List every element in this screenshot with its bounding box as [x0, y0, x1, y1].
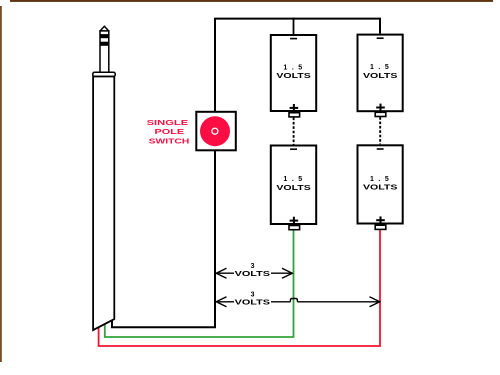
svg-text:1.5: 1.5	[370, 176, 389, 183]
phone plug P1 tip	[100, 26, 110, 72]
svg-text:SWITCH: SWITCH	[149, 139, 190, 146]
svg-text:VOLTS: VOLTS	[363, 185, 398, 192]
switch S1 button center ring	[212, 128, 218, 134]
wire: top bus from switch up and across to battery B3	[215, 19, 380, 111]
dimension arrow: 3 VOLTS across one series pair	[216, 263, 292, 278]
svg-text:1.5: 1.5	[283, 176, 302, 183]
wire: red lead from battery B4 positive terminal to plug	[99, 230, 380, 346]
svg-text:VOLTS: VOLTS	[235, 271, 271, 278]
wire: green lead from battery B2 positive terminal to plug	[105, 231, 294, 338]
battery B4 cell box	[358, 145, 403, 223]
wire: drop from top bus to battery B1	[293, 18, 295, 34]
battery B3 terminal nub	[375, 112, 386, 116]
switch S1 red button	[200, 116, 230, 146]
svg-text:SINGLE: SINGLE	[147, 120, 189, 127]
wire: black return from switch bottom to plug	[112, 151, 215, 328]
svg-text:VOLTS: VOLTS	[363, 73, 398, 80]
battery B3 positive mark	[376, 104, 385, 111]
phone plug P1 body with diagonal cable cut	[93, 77, 114, 331]
battery B2 positive mark	[290, 217, 299, 224]
svg-text:VOLTS: VOLTS	[276, 73, 311, 80]
battery B4 terminal nub	[375, 225, 386, 229]
battery B2 terminal nub	[289, 226, 300, 230]
battery B3 negative mark	[377, 37, 384, 39]
battery B1 value label 1.5 VOLTS	[276, 64, 311, 80]
svg-text:1.5: 1.5	[370, 64, 389, 71]
battery B1 positive mark	[290, 104, 299, 111]
label: SINGLE POLE SWITCH	[147, 120, 190, 146]
battery B2 negative mark	[290, 148, 297, 150]
battery B4 positive mark	[376, 216, 385, 223]
svg-text:3: 3	[251, 292, 255, 299]
svg-text:VOLTS: VOLTS	[235, 299, 271, 306]
battery B2 cell box	[271, 146, 316, 225]
svg-text:1.5: 1.5	[283, 64, 302, 71]
dashed connector between B3 and B4	[379, 117, 381, 144]
svg-text:3: 3	[251, 263, 255, 270]
battery B1 negative mark	[290, 38, 297, 40]
phone plug P1 flange	[93, 72, 115, 76]
battery B2 value label 1.5 VOLTS	[276, 176, 311, 192]
switch S1 box	[196, 112, 236, 151]
svg-text:POLE: POLE	[155, 129, 185, 136]
battery B3 cell box	[358, 35, 403, 112]
dimension arrow: 3 VOLTS across outer leads with wire hop	[216, 292, 380, 307]
battery B3 value label 1.5 VOLTS	[363, 64, 398, 80]
svg-text:VOLTS: VOLTS	[276, 185, 311, 192]
battery B1 cell box	[271, 35, 316, 111]
battery B1 terminal nub	[289, 113, 300, 117]
battery B4 negative mark	[377, 148, 384, 150]
dashed connector between B1 and B2	[293, 118, 295, 145]
battery B4 value label 1.5 VOLTS	[363, 176, 398, 192]
